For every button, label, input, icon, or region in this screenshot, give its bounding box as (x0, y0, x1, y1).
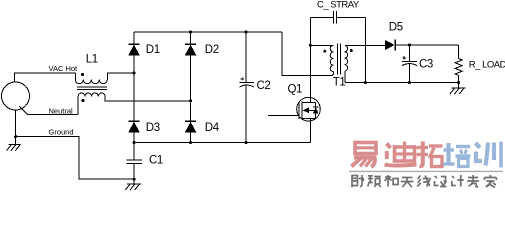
diode D5 (385, 40, 459, 51)
wire drain riser to primary top and C_STRAY (309, 17, 311, 97)
glyph he (385, 175, 399, 187)
wire VAC Hot (14, 73, 75, 82)
junction AC left (133, 72, 136, 75)
junction C2 bottom (245, 141, 248, 144)
diode D4 (185, 121, 197, 132)
junction C2 top (245, 31, 248, 34)
svg-text:D2: D2 (205, 44, 219, 56)
svg-text:T1: T1 (333, 77, 346, 89)
junction D4 bottom (189, 141, 192, 144)
AC source (2, 82, 30, 110)
svg-text:C2: C2 (257, 80, 271, 92)
svg-text:D4: D4 (205, 122, 220, 134)
diode D3 (128, 121, 140, 132)
wire top rail (134, 31, 282, 33)
svg-text:D3: D3 (146, 122, 160, 134)
wire bridge left leg (133, 32, 135, 143)
junction C3 bottom (408, 81, 411, 84)
watermark logo 易迪拓培训 (352, 142, 443, 168)
glyph jia (484, 175, 496, 188)
MOSFET Q1 (268, 97, 320, 121)
capacitor C1 (127, 143, 142, 180)
wire Ground (16, 110, 135, 179)
glyph pei (443, 143, 471, 167)
svg-text:R_ LOAD: R_ LOAD (469, 60, 505, 71)
resistor R_LOAD (455, 45, 462, 83)
svg-text:VAC Hot: VAC Hot (49, 64, 79, 73)
glyph yi (352, 143, 377, 168)
junction D2 top (189, 31, 192, 34)
ground symbol (C1) (125, 179, 141, 190)
transformer T1 (310, 44, 353, 83)
glyph she (352, 175, 365, 187)
junction C1 top (133, 141, 136, 144)
glyph pin (368, 175, 381, 187)
glyph di (385, 142, 417, 166)
wire rail to primary bottom (282, 32, 334, 76)
ground symbol (AC source) (7, 137, 21, 151)
junction R_LOAD bottom (457, 81, 460, 84)
svg-text:D1: D1 (146, 44, 160, 56)
svg-text:C3: C3 (419, 59, 433, 71)
svg-text:L1: L1 (86, 54, 98, 66)
junction AC right (189, 99, 192, 102)
glyph tuo (417, 142, 443, 167)
wire secondary bottom (345, 82, 459, 84)
junction drain / primary top (309, 44, 312, 47)
glyph xun (476, 142, 502, 168)
wire source (309, 121, 311, 143)
junction C1 bottom (133, 178, 136, 181)
divider line (349, 170, 503, 172)
svg-text:Neutral: Neutral (49, 107, 74, 116)
svg-text:Q1: Q1 (288, 84, 303, 96)
inductor L1 (common-mode choke) (75, 73, 190, 115)
glyph zhuan (467, 175, 479, 188)
junction C3 top (408, 44, 411, 47)
svg-text:D5: D5 (389, 22, 403, 34)
wire bridge right leg (190, 32, 192, 143)
capacitor C2 (polarized) (240, 32, 255, 143)
glyph tian (401, 178, 414, 188)
glyph she2 (435, 176, 447, 187)
wire bottom rail (134, 142, 310, 144)
junction C_STRAY bottom (364, 81, 367, 84)
capacitor C_STRAY (310, 11, 365, 83)
svg-text:Ground: Ground (49, 128, 74, 137)
ground symbol (output) (450, 83, 466, 95)
diode D2 (185, 44, 197, 55)
glyph ji (452, 175, 464, 187)
wire secondary top (345, 45, 385, 47)
svg-text:C1: C1 (149, 154, 163, 166)
wire Neutral (20, 107, 79, 115)
capacitor C3 (polarized) (402, 45, 417, 83)
diode D1 (128, 44, 140, 55)
glyph xian (417, 176, 431, 187)
svg-text:C_ STRAY: C_ STRAY (317, 0, 360, 11)
junction ground-vertical (14, 135, 17, 138)
